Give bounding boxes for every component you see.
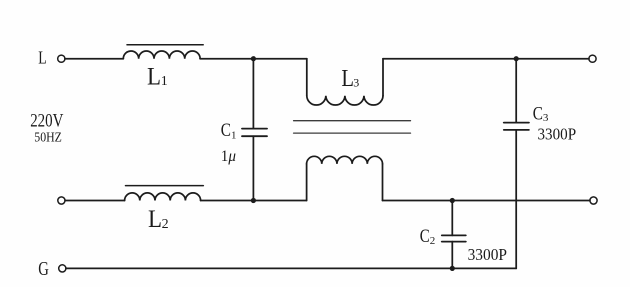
svg-text:L: L: [341, 66, 354, 92]
node junction C1 bottom: [251, 198, 256, 203]
inductor L2: [125, 186, 204, 201]
svg-text:1μ: 1μ: [221, 148, 236, 165]
transformer choke L3 bottom winding: [307, 156, 383, 200]
svg-text:L: L: [147, 64, 161, 91]
svg-text:L: L: [38, 48, 46, 68]
svg-text:C: C: [221, 120, 231, 141]
svg-text:1: 1: [231, 130, 237, 142]
terminal output bottom right: [590, 197, 597, 204]
svg-text:2: 2: [430, 235, 436, 247]
svg-text:1: 1: [161, 74, 168, 89]
node junction C1 top: [251, 56, 256, 61]
transformer choke L3 top winding: [307, 59, 383, 105]
terminal L input: [58, 55, 65, 62]
terminal G input: [59, 265, 66, 272]
svg-text:50HZ: 50HZ: [34, 130, 62, 145]
wire L2 to L3 bottom: [201, 200, 307, 202]
wire N terminal to L2: [65, 200, 125, 202]
svg-text:3300P: 3300P: [538, 124, 577, 143]
svg-text:3300P: 3300P: [468, 245, 507, 264]
wire L3 top to right terminal: [383, 58, 589, 60]
svg-text:C: C: [420, 227, 430, 247]
svg-text:3: 3: [353, 76, 359, 90]
svg-text:G: G: [38, 258, 49, 280]
terminal output top right: [589, 55, 596, 62]
node junction C2 bottom: [450, 266, 455, 271]
transformer choke L3 core: [294, 121, 411, 133]
node junction C3 top: [514, 56, 519, 61]
svg-text:C: C: [533, 103, 543, 124]
wire ground line G: [66, 267, 516, 269]
capacitor C2: [442, 201, 466, 269]
svg-text:2: 2: [162, 217, 169, 232]
terminal N input: [58, 197, 65, 204]
capacitor C1: [242, 59, 267, 201]
svg-text:L: L: [148, 206, 162, 233]
node junction C2 top: [450, 198, 455, 203]
wire L3 bottom to right terminal: [383, 200, 590, 202]
inductor L1: [123, 45, 203, 59]
wire L terminal to L1: [65, 58, 123, 60]
capacitor C3: [504, 59, 529, 269]
svg-text:220V: 220V: [30, 111, 63, 132]
svg-text:3: 3: [543, 112, 549, 124]
wire L1 to L3 top: [200, 58, 307, 60]
